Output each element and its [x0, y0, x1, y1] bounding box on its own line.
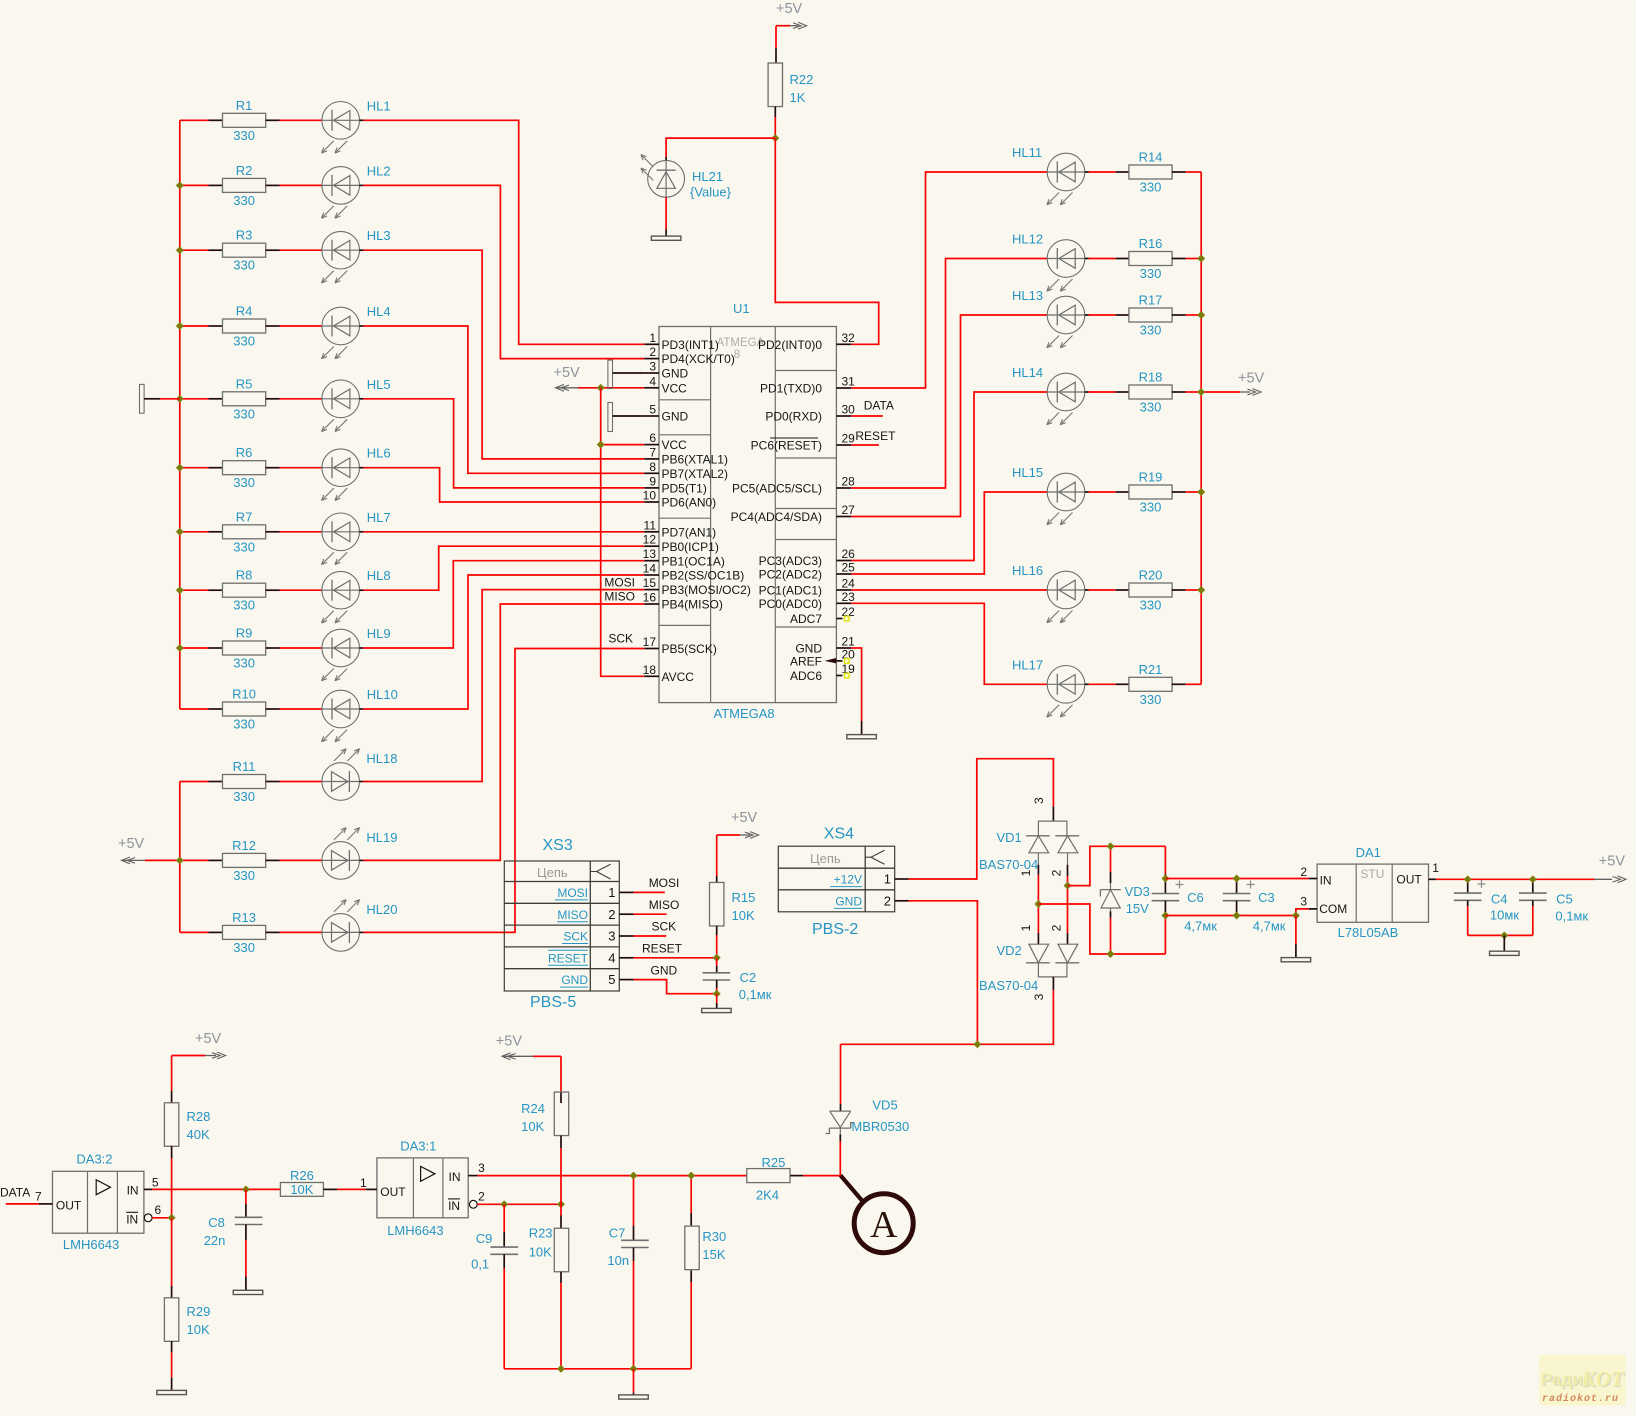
svg-text:R14: R14	[1139, 150, 1163, 165]
svg-text:PC6(RESET): PC6(RESET)	[751, 439, 822, 453]
LED HL10	[280, 687, 398, 742]
LED HL14	[1012, 365, 1116, 425]
svg-text:RESET: RESET	[855, 429, 896, 443]
svg-text:23: 23	[842, 590, 856, 604]
LED HL6	[280, 446, 391, 501]
svg-text:SCK: SCK	[608, 631, 633, 645]
svg-text:HL3: HL3	[367, 228, 391, 243]
svg-text:DA3:2: DA3:2	[76, 1152, 112, 1167]
capacitor C6 4,7mk	[1152, 846, 1218, 954]
connector XS3 PBS-5	[504, 837, 619, 1011]
LED HL15	[1012, 465, 1116, 525]
pin 1 PD3(INT1)	[644, 331, 719, 352]
wire pin21 GND to ground	[851, 648, 861, 721]
wire bottom ground rail	[504, 1368, 691, 1370]
svg-text:330: 330	[1140, 598, 1162, 613]
svg-text:PD0(RXD): PD0(RXD)	[765, 410, 822, 424]
svg-text:40K: 40K	[187, 1127, 210, 1142]
svg-text:3: 3	[1032, 993, 1046, 1000]
wire C2 to ground	[716, 994, 718, 1003]
svg-text:HL6: HL6	[367, 446, 391, 461]
svg-text:KOT: KOT	[1581, 1367, 1625, 1391]
XS3 row GND pin 5	[560, 972, 634, 987]
wire +5V vertical to AVCC	[601, 388, 645, 677]
svg-text:5: 5	[152, 1176, 159, 1190]
junction right bus	[1197, 388, 1205, 396]
resistor R5 330	[180, 376, 280, 421]
junction	[176, 856, 184, 864]
junction right bus	[1197, 311, 1205, 319]
svg-text:+12V: +12V	[834, 873, 862, 887]
wire U1 to HL13	[851, 315, 1047, 517]
regulator DA1 L78L05AB	[1317, 845, 1428, 940]
wire +5V to pin6	[601, 444, 645, 446]
wire U1 to HL16	[851, 589, 1047, 591]
svg-text:PC2(ADC2): PC2(ADC2)	[759, 568, 822, 582]
pin 3 IN wire	[468, 1161, 746, 1176]
wire R22 junction to pin32	[775, 138, 878, 344]
pin 26 PC3(ADC3)	[759, 547, 856, 568]
junction right bus	[1197, 255, 1205, 263]
wire C6 to DA1 IN	[1165, 878, 1308, 880]
svg-text:3: 3	[1032, 797, 1046, 804]
junction right bus	[1197, 586, 1205, 594]
svg-text:HL5: HL5	[367, 377, 391, 392]
resistor R24 10K	[560, 1056, 562, 1103]
svg-text:10K: 10K	[732, 908, 755, 923]
svg-text:HL4: HL4	[367, 304, 391, 319]
svg-text:AREF: AREF	[790, 655, 822, 669]
junction C8 top	[242, 1185, 250, 1193]
pin 22 ADC7	[790, 605, 855, 626]
svg-text:330: 330	[233, 789, 255, 804]
op IC U1 ATMEGA8 box	[659, 301, 836, 721]
capacitor C9 0,1	[471, 1204, 518, 1369]
resistor R10 330	[180, 687, 280, 732]
pin 23 PC0(ADC0)	[759, 590, 856, 611]
svg-text:7: 7	[35, 1190, 42, 1204]
svg-text:R9: R9	[236, 626, 253, 641]
svg-text:BAS70-04: BAS70-04	[979, 978, 1038, 993]
svg-text:12: 12	[643, 533, 657, 547]
svg-text:C8: C8	[208, 1215, 225, 1230]
svg-text:R17: R17	[1139, 293, 1163, 308]
junction VD3 top	[1107, 842, 1115, 850]
pin 30 PD0(RXD)	[765, 403, 855, 424]
svg-text:GND: GND	[835, 894, 862, 908]
junction R24/R23/pin2	[557, 1200, 565, 1208]
svg-text:R16: R16	[1139, 236, 1163, 251]
junction	[176, 246, 184, 254]
wire HL8 to U1	[363, 546, 644, 590]
svg-text:3: 3	[1300, 895, 1307, 909]
LED HL5	[280, 377, 391, 432]
resistor R21 330	[1116, 662, 1202, 707]
svg-text:OUT: OUT	[56, 1199, 82, 1213]
svg-text:VD3: VD3	[1125, 884, 1150, 899]
svg-text:24: 24	[842, 577, 856, 591]
svg-text:2: 2	[478, 1190, 485, 1204]
svg-text:PC4(ADC4/SDA): PC4(ADC4/SDA)	[731, 510, 822, 524]
svg-text:6: 6	[155, 1203, 162, 1217]
junction	[176, 464, 184, 472]
XS3 row SCK pin 3	[562, 929, 634, 944]
svg-text:PB0(ICP1): PB0(ICP1)	[662, 540, 719, 554]
svg-text:HL7: HL7	[367, 510, 391, 525]
pin 32 PD2(INT0)0	[758, 331, 855, 352]
svg-text:330: 330	[233, 334, 255, 349]
svg-text:29: 29	[842, 432, 856, 446]
pin 29 PC6(RESET)	[751, 432, 856, 453]
svg-text:PB3(MOSI/OC2): PB3(MOSI/OC2)	[662, 583, 751, 597]
svg-text:330: 330	[1140, 400, 1162, 415]
wire XS4 GND down	[909, 901, 978, 1045]
+5V arrow at U1 VCC	[554, 365, 601, 391]
svg-text:+5V: +5V	[496, 1034, 523, 1050]
resistor R16 330	[1116, 236, 1202, 281]
svg-text:+5V: +5V	[195, 1031, 222, 1047]
LED HL19	[280, 828, 398, 880]
pin 4 VCC	[644, 374, 687, 395]
svg-text:PB7(XTAL2): PB7(XTAL2)	[662, 467, 728, 481]
junction C6 top	[1161, 875, 1169, 883]
svg-text:R30: R30	[702, 1229, 726, 1244]
svg-text:GND: GND	[662, 367, 689, 381]
svg-text:2K4: 2K4	[756, 1188, 779, 1203]
svg-text:+5V: +5V	[1238, 371, 1265, 387]
svg-text:10K: 10K	[529, 1244, 552, 1259]
junction R15/RESET/C2	[713, 954, 721, 962]
junction VD1 pin2	[1064, 882, 1072, 890]
svg-text:0,1мк: 0,1мк	[1555, 909, 1588, 924]
svg-text:+5V: +5V	[554, 365, 581, 381]
no-connect pin 22	[844, 616, 849, 621]
resistor R8 330	[180, 568, 280, 613]
wire HL1 to U1	[363, 120, 644, 344]
svg-text:DATA: DATA	[864, 399, 894, 413]
junction C6 bottom	[1161, 912, 1169, 920]
svg-text:PD3(INT1): PD3(INT1)	[662, 338, 719, 352]
junction C3 top	[1233, 875, 1241, 883]
svg-text:R28: R28	[187, 1109, 211, 1124]
svg-text:C3: C3	[1258, 890, 1275, 905]
svg-text:C2: C2	[740, 970, 757, 985]
svg-text:AVCC: AVCC	[662, 670, 695, 684]
+5V arrow above R24	[496, 1034, 561, 1060]
pin 21 GND	[795, 635, 855, 656]
svg-text:330: 330	[233, 475, 255, 490]
junction VD1 pin1	[1034, 900, 1042, 908]
junction C7 top	[630, 1172, 638, 1180]
svg-text:1: 1	[360, 1176, 367, 1190]
svg-text:VD1: VD1	[997, 830, 1022, 845]
svg-text:31: 31	[842, 375, 856, 389]
svg-text:+5V: +5V	[776, 1, 803, 17]
pin 6 VCC	[644, 431, 687, 452]
svg-text:330: 330	[233, 406, 255, 421]
svg-text:R5: R5	[236, 376, 253, 391]
svg-text:SCK: SCK	[563, 930, 588, 944]
svg-text:PB5(SCK): PB5(SCK)	[662, 642, 717, 656]
svg-text:HL15: HL15	[1012, 465, 1043, 480]
wire U1 to HL11	[851, 172, 1047, 388]
resistor R18 330	[1116, 370, 1202, 415]
svg-text:PB1(OC1A): PB1(OC1A)	[662, 554, 725, 568]
ground under DA1	[1281, 958, 1311, 962]
XS3 row MISO pin 2	[557, 907, 634, 922]
svg-text:R7: R7	[236, 509, 253, 524]
wire VD1 pin2 to VD3 frame top	[1068, 846, 1166, 885]
svg-text:Цепь: Цепь	[810, 851, 841, 866]
wire U1 to HL14	[851, 392, 1047, 561]
svg-text:PB6(XTAL1): PB6(XTAL1)	[662, 453, 728, 467]
capacitor C4 10mk	[1454, 879, 1519, 935]
pin 16 PB4(MISO)	[643, 591, 723, 612]
pin 12 PB0(ICP1)	[643, 533, 719, 554]
capacitor C2 0,1mk	[703, 958, 772, 1002]
svg-text:330: 330	[233, 717, 255, 732]
svg-text:26: 26	[842, 547, 856, 561]
svg-text:10K: 10K	[290, 1182, 313, 1197]
diode VD2 BAS70-04	[979, 924, 1079, 1000]
wire left +5V bus (R11-R13)	[179, 782, 181, 933]
junction C7 bottom	[630, 1365, 638, 1373]
svg-text:R26: R26	[290, 1168, 314, 1183]
svg-text:10: 10	[643, 489, 657, 503]
svg-text:22n: 22n	[204, 1233, 226, 1248]
ground bottom center	[619, 1395, 649, 1399]
svg-text:10мк: 10мк	[1490, 908, 1519, 923]
svg-text:HL12: HL12	[1012, 232, 1043, 247]
junction	[176, 644, 184, 652]
svg-text:MOSI: MOSI	[557, 886, 588, 900]
svg-text:PD7(AN1): PD7(AN1)	[662, 525, 717, 539]
svg-text:R29: R29	[187, 1304, 211, 1319]
svg-text:PB2(SS/OC1B): PB2(SS/OC1B)	[662, 569, 745, 583]
svg-text:SCK: SCK	[652, 920, 677, 934]
resistor R14 330	[1116, 150, 1202, 195]
wire rail down to VD5	[840, 1044, 842, 1104]
svg-text:IN: IN	[448, 1199, 460, 1213]
resistor R25 2K4	[747, 1155, 841, 1202]
port bar at U1 pin5 GND	[608, 403, 644, 432]
junction	[176, 322, 184, 330]
LED HL12	[1012, 232, 1116, 292]
pin 24 PC1(ADC1)	[759, 577, 856, 598]
svg-text:HL19: HL19	[366, 830, 397, 845]
wire HL5 to U1	[363, 399, 644, 488]
svg-text:HL16: HL16	[1012, 563, 1043, 578]
pin 27 PC4(ADC4/SDA)	[731, 503, 856, 524]
wire pin30 DATA stub	[851, 399, 894, 416]
svg-text:R25: R25	[762, 1155, 786, 1170]
svg-text:MISO: MISO	[649, 898, 680, 912]
junction C2/GND	[713, 990, 721, 998]
svg-text:+5V: +5V	[1599, 853, 1626, 869]
ground under HL21	[651, 236, 681, 240]
svg-text:+5V: +5V	[731, 810, 758, 826]
svg-text:COM: COM	[1319, 902, 1347, 916]
junction R30 top	[687, 1172, 695, 1180]
LED HL13	[1012, 288, 1116, 348]
pin 8 PB7(XTAL2)	[644, 460, 728, 481]
svg-text:4,7мк: 4,7мк	[1253, 919, 1286, 934]
junction C5 top	[1529, 875, 1537, 883]
junction	[176, 395, 184, 403]
pin 7 OUT wire DATA	[0, 1185, 53, 1204]
svg-text:OUT: OUT	[380, 1185, 406, 1199]
port bar at U1 pin3 GND	[608, 360, 644, 388]
wire VD1 pin1 down	[1037, 853, 1039, 865]
svg-text:21: 21	[842, 635, 856, 649]
LED HL17	[1012, 657, 1116, 717]
svg-text:5: 5	[608, 972, 615, 987]
svg-text:R24: R24	[521, 1101, 545, 1116]
svg-text:L78L05AB: L78L05AB	[1338, 925, 1399, 940]
svg-text:OUT: OUT	[1396, 873, 1422, 887]
svg-text:HL20: HL20	[366, 902, 397, 917]
svg-text:C7: C7	[609, 1226, 626, 1241]
svg-text:2: 2	[649, 345, 656, 359]
capacitor C5 0,1mk	[1519, 879, 1588, 935]
svg-text:1: 1	[608, 885, 615, 900]
wire HL3 to U1	[363, 250, 644, 459]
pin 13 PB1(OC1A)	[643, 547, 725, 568]
resistor R22 1K	[768, 26, 813, 138]
svg-text:330: 330	[233, 128, 255, 143]
resistor R11 330	[180, 759, 280, 804]
op-amp DA3:2 LMH6643	[53, 1152, 144, 1252]
pin 31 PD1(TXD)0	[760, 375, 855, 396]
pin 3 GND	[644, 360, 688, 381]
resistor R29 10K	[164, 1218, 210, 1391]
svg-text:7: 7	[649, 445, 656, 459]
svg-text:330: 330	[233, 868, 255, 883]
svg-text:1: 1	[884, 872, 891, 887]
svg-text:R13: R13	[232, 910, 256, 925]
svg-text:2: 2	[1050, 869, 1064, 876]
ammeter A	[841, 1175, 914, 1252]
svg-text:330: 330	[233, 539, 255, 554]
wire VD1 pin1 to VD3 frame bottom	[1038, 904, 1165, 954]
wire HL7 to U1	[363, 531, 644, 533]
resistor R12 330	[180, 838, 280, 883]
svg-text:330: 330	[233, 656, 255, 671]
wire XS3 MOSI stub	[634, 876, 680, 892]
resistor R20 330	[1116, 568, 1202, 613]
svg-text:R4: R4	[236, 304, 253, 319]
ground under U1	[847, 735, 877, 739]
svg-text:HL10: HL10	[367, 687, 398, 702]
LED HL20	[280, 900, 398, 952]
svg-text:R20: R20	[1139, 568, 1163, 583]
port bar at R5 row	[140, 384, 180, 413]
svg-text:PB4(MISO): PB4(MISO)	[662, 598, 723, 612]
svg-text:PC5(ADC5/SCL): PC5(ADC5/SCL)	[732, 482, 822, 496]
diode VD1 BAS70-04	[979, 797, 1079, 876]
svg-text:2: 2	[1050, 924, 1064, 931]
LED HL2	[280, 163, 391, 218]
svg-text:VCC: VCC	[662, 381, 688, 395]
svg-text:1: 1	[1019, 924, 1033, 931]
pin 11 PD7(AN1)	[644, 518, 717, 539]
wire HL10 to U1	[363, 575, 644, 709]
pin 1 OUT stub	[360, 1176, 377, 1190]
svg-text:1: 1	[649, 331, 656, 345]
wire right +5V bus	[1200, 172, 1202, 684]
LED HL7	[280, 510, 391, 565]
svg-text:330: 330	[1140, 323, 1162, 338]
svg-text:330: 330	[1140, 266, 1162, 281]
svg-text:14: 14	[643, 562, 657, 576]
pin 20 AREF	[790, 647, 855, 668]
wire U1 to HL15	[851, 492, 1047, 574]
svg-text:IN: IN	[449, 1170, 461, 1184]
resistor R26 10K	[280, 1168, 365, 1197]
svg-text:PBS-5: PBS-5	[530, 994, 576, 1011]
wire R22 to HL21	[666, 138, 775, 157]
resistor R30 15K	[685, 1176, 726, 1369]
resistor R7 330	[180, 509, 280, 554]
svg-text:32: 32	[842, 331, 856, 345]
svg-text:GND: GND	[662, 410, 689, 424]
wire bottom power rail	[841, 999, 1054, 1044]
svg-text:ATMEGA8: ATMEGA8	[714, 706, 775, 721]
svg-text:4: 4	[608, 950, 615, 965]
wire COM to ground	[1295, 916, 1297, 945]
svg-text:DA3:1: DA3:1	[400, 1138, 436, 1153]
svg-text:330: 330	[233, 940, 255, 955]
resistor R9 330	[180, 626, 280, 671]
svg-text:25: 25	[842, 561, 856, 575]
svg-text:2: 2	[1300, 865, 1307, 879]
svg-text:R8: R8	[236, 568, 253, 583]
connector XS4 PBS-2	[778, 826, 894, 939]
svg-text:R3: R3	[236, 228, 253, 243]
resistor R17 330	[1116, 293, 1202, 338]
svg-text:MBR0530: MBR0530	[851, 1119, 909, 1134]
junction C3 bottom	[1233, 912, 1241, 920]
junction GND/bottom rail	[973, 1040, 981, 1048]
wire HL6 to U1	[363, 468, 644, 502]
pin 18 AVCC	[643, 663, 695, 684]
junction	[597, 441, 605, 449]
junction	[176, 528, 184, 536]
svg-text:R2: R2	[236, 163, 253, 178]
svg-text:VCC: VCC	[662, 438, 688, 452]
wire +12V to VD1 pin3	[909, 759, 1054, 879]
svg-text:HL8: HL8	[367, 568, 391, 583]
svg-text:RESET: RESET	[642, 941, 683, 955]
svg-text:1: 1	[1019, 869, 1033, 876]
zener diode VD3 15V	[1100, 846, 1149, 954]
pin 5 GND	[644, 403, 688, 424]
pin 1 OUT wire to +5V	[1429, 853, 1627, 882]
pin 2 IN	[1300, 865, 1317, 879]
LED HL9	[280, 626, 391, 681]
svg-text:330: 330	[233, 193, 255, 208]
svg-text:2: 2	[608, 907, 615, 922]
junction R23 bottom	[557, 1365, 565, 1373]
XS4 row GND pin 2	[834, 893, 909, 908]
capacitor C7 10n	[607, 1176, 648, 1369]
svg-text:330: 330	[1140, 180, 1162, 195]
svg-text:6: 6	[649, 431, 656, 445]
svg-text:ADC6: ADC6	[790, 669, 822, 683]
svg-text:3: 3	[478, 1161, 485, 1175]
pin 14 PB2(SS/OC1B)	[643, 562, 745, 583]
svg-text:+5V: +5V	[118, 836, 145, 852]
